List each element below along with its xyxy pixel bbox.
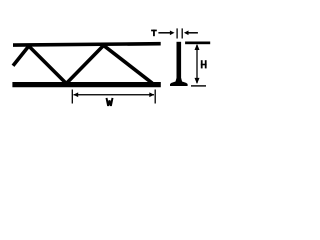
W dimension left extension tick (71, 90, 73, 104)
diagonal web 4 (104, 45, 153, 83)
label H (201, 60, 203, 68)
W right arrowhead (149, 92, 154, 97)
label W (107, 98, 113, 106)
T dimension tick left (176, 28, 178, 38)
diagonal web 3 (66, 45, 103, 83)
cross-section base flange (170, 78, 188, 86)
T dimension left-pointing arrow (184, 31, 189, 36)
W left arrowhead (73, 92, 78, 97)
T dimension tick right (181, 28, 183, 38)
H dimension line (196, 45, 198, 83)
W dimension line (74, 94, 155, 95)
W dimension right extension tick (154, 90, 156, 104)
top chord (13, 42, 161, 47)
cross-section profile (vertical web bar) (177, 42, 182, 81)
diagonal web 2 (29, 46, 67, 84)
H down arrowhead (195, 78, 200, 84)
H up arrowhead (195, 44, 200, 50)
T dimension right-pointing arrow (158, 32, 170, 34)
H bottom reference line (191, 85, 206, 86)
label T (151, 30, 157, 32)
diagonal web stub (left, cut) (13, 46, 29, 66)
bottom chord (12, 82, 160, 87)
H top reference line (185, 42, 210, 45)
